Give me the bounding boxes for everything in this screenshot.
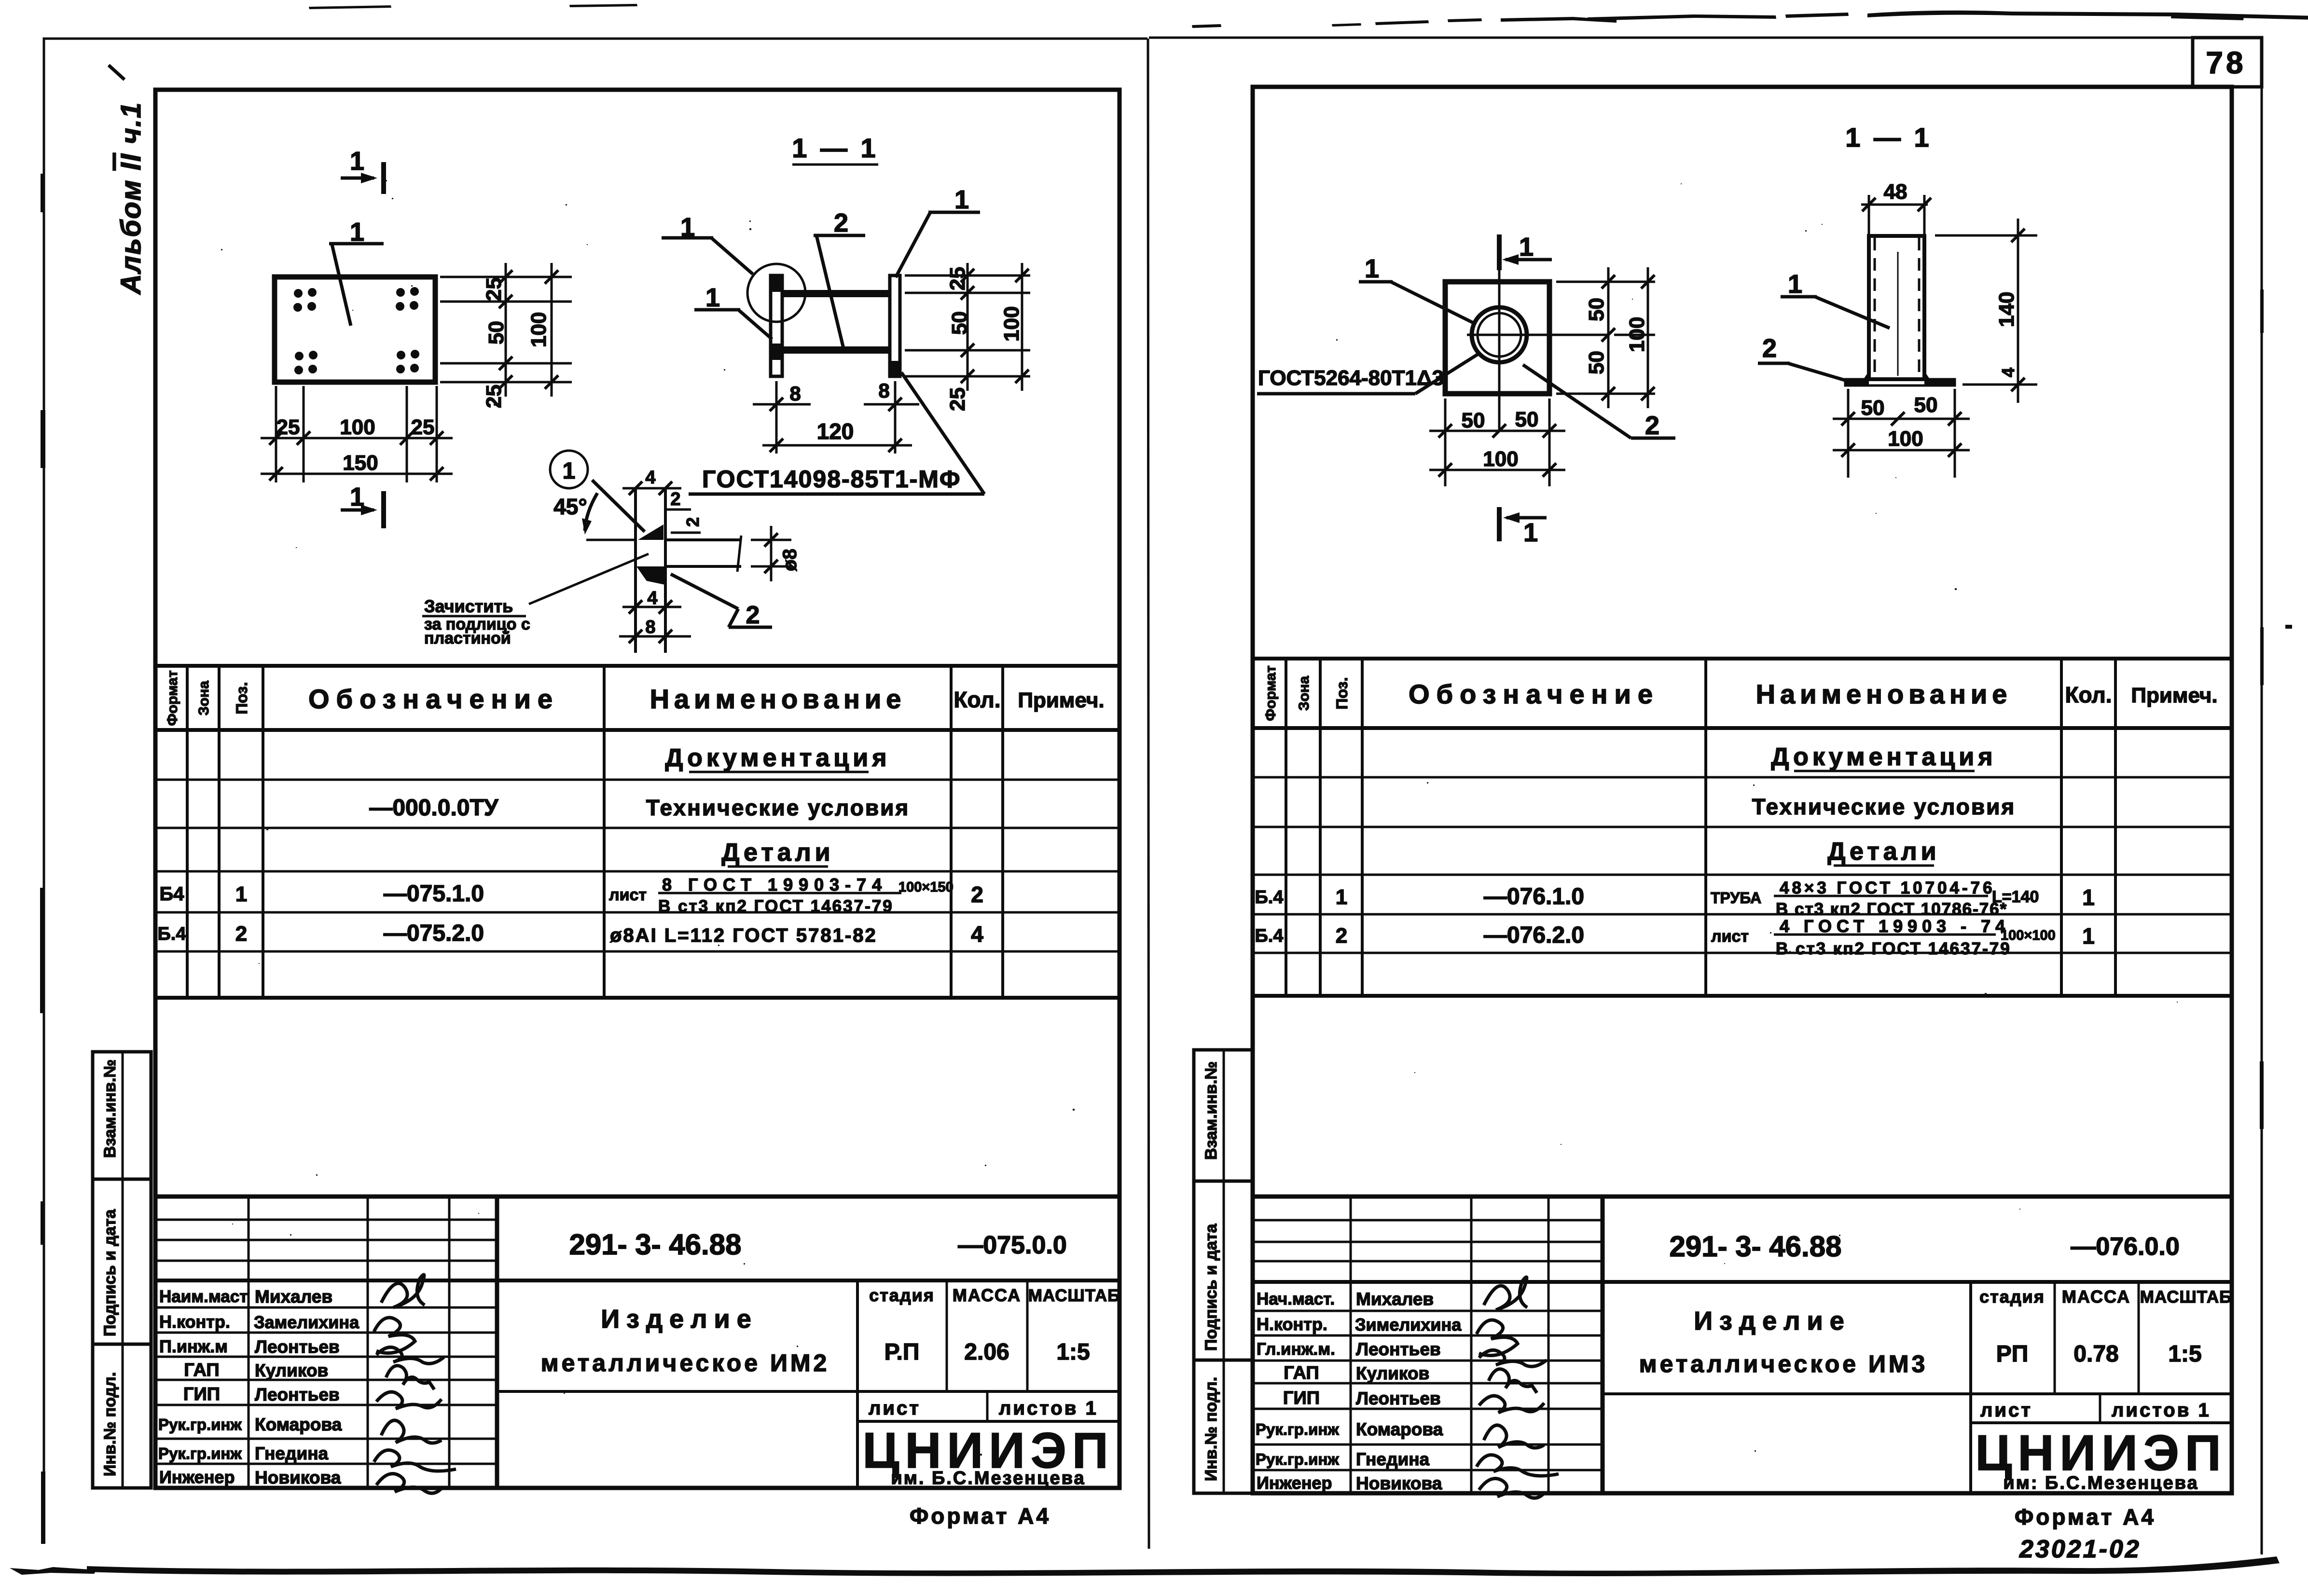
svg-text:2: 2 xyxy=(683,517,703,527)
sheet 1 table row pos.1 plate xyxy=(160,875,983,916)
svg-text:—000.0.0ТУ: —000.0.0ТУ xyxy=(369,795,498,821)
sheet 2 section right dimension 140 and 4 xyxy=(1935,219,2037,403)
sheet 1 section view balloon circle xyxy=(747,264,805,322)
sheet 1 handwritten signatures xyxy=(374,1275,456,1493)
svg-text:Инв.№ подл.: Инв.№ подл. xyxy=(101,1372,119,1476)
sheet 1 table header Формат (rotated) xyxy=(165,670,180,726)
svg-text:100: 100 xyxy=(1625,317,1649,352)
svg-text:листов 1: листов 1 xyxy=(999,1398,1098,1419)
sheet 2 table header Примеч. xyxy=(2131,684,2217,707)
svg-text:ГАП: ГАП xyxy=(184,1360,219,1380)
svg-text:Н.контр.: Н.контр. xyxy=(1257,1314,1327,1334)
sheet 2 plan right dimension group 50/50 and 100 xyxy=(1556,267,1655,408)
sheet 1 note Зачистить за подлицо с пластиной xyxy=(422,554,649,647)
svg-text:291- 3- 46.88: 291- 3- 46.88 xyxy=(1670,1230,1842,1263)
svg-text:50: 50 xyxy=(1585,351,1608,374)
sheet 1 plan right dimension group 25/50/25 and 100 xyxy=(440,263,572,408)
sheet 1 table row Детали xyxy=(721,839,834,867)
svg-text:120: 120 xyxy=(817,419,854,444)
sheet 1 plan view weld point clusters xyxy=(293,287,419,374)
scan artifact: left spine dark dashes xyxy=(40,174,45,1544)
sheet 2 table header Наименование xyxy=(1756,679,2012,709)
svg-text:Формат А4: Формат А4 xyxy=(2015,1504,2156,1529)
svg-text:8: 8 xyxy=(878,379,889,402)
svg-text:Комарова: Комарова xyxy=(255,1415,342,1434)
svg-text:140: 140 xyxy=(1995,292,2018,327)
sheet 2 section leader pos.2 xyxy=(1758,334,1848,381)
svg-text:25: 25 xyxy=(482,277,506,301)
sheet 2 plan bottom dimension group 50/50 and 100 xyxy=(1429,399,1565,486)
svg-text:стадия: стадия xyxy=(869,1285,935,1305)
sheet 2 table header Кол. xyxy=(2065,682,2112,707)
svg-text:пластиной: пластиной xyxy=(424,629,511,647)
svg-text:50: 50 xyxy=(1861,396,1885,420)
sheet 2 table row Технические условия xyxy=(1752,794,2016,819)
sheet 2 table row Документация xyxy=(1771,743,1996,771)
sheet 2 section view: tube xyxy=(1869,236,1924,379)
svg-text:Взам.инв.№: Взам.инв.№ xyxy=(1202,1061,1220,1160)
svg-text:Б4: Б4 xyxy=(160,883,185,905)
svg-text:ø8АI L=112 ГОСТ 5781-82: ø8АI L=112 ГОСТ 5781-82 xyxy=(610,925,877,946)
sheet 2 лист / листов 1 xyxy=(1980,1400,2211,1421)
sheet 1 section view: right flange plate xyxy=(890,275,900,376)
svg-text:Формат: Формат xyxy=(1263,665,1279,721)
sheet 1 section leader 2 xyxy=(814,208,865,350)
sheet 1 section view: top rod xyxy=(782,290,890,297)
sheet 1 margin stamp boxes column xyxy=(93,1052,151,1488)
sheet 2 document code -076.0.0 xyxy=(2071,1233,2180,1261)
svg-text:1: 1 xyxy=(1523,518,1538,547)
sheet 2 section leader pos.1 xyxy=(1781,270,1890,328)
sheet 1 weld designation ГОСТ14098-85Т1-МФ xyxy=(689,372,984,494)
svg-text:Подпись и дата: Подпись и дата xyxy=(101,1209,119,1336)
sheet 1 plan view: plate 150x100 xyxy=(275,277,435,382)
sheet 1 stamp headers стадия масса масштаб xyxy=(869,1285,1120,1305)
svg-text:2: 2 xyxy=(670,489,680,509)
sheet 2 table row Детали xyxy=(1827,838,1940,866)
sheet 1 table row Технические условия xyxy=(369,795,910,821)
svg-text:1: 1 xyxy=(1519,233,1534,261)
svg-text:1: 1 xyxy=(235,882,247,906)
svg-text:—076.2.0: —076.2.0 xyxy=(1484,922,1584,948)
svg-text:ГАП: ГАП xyxy=(1284,1363,1319,1383)
sheet 1 section leader 1 (top left) xyxy=(662,213,753,274)
svg-text:1: 1 xyxy=(1788,270,1802,299)
svg-text:им. Б.С.Мезенцева: им. Б.С.Мезенцева xyxy=(891,1468,1085,1488)
sheet 2 table header Поз. (rotated) xyxy=(1333,677,1351,710)
sheet 2 logo ЦНИИЭП xyxy=(1975,1425,2226,1493)
sheet 2 plan view: square plate 100x100 xyxy=(1445,282,1549,394)
svg-text:Куликов: Куликов xyxy=(1356,1363,1429,1383)
svg-text:Поз.: Поз. xyxy=(233,682,250,715)
svg-text:1: 1 xyxy=(954,185,969,214)
svg-text:лист: лист xyxy=(1980,1400,2032,1421)
svg-text:Формат: Формат xyxy=(165,670,180,726)
svg-text:8 ГОСТ 19903-74: 8 ГОСТ 19903-74 xyxy=(662,875,887,894)
svg-text:Инв.№ подл.: Инв.№ подл. xyxy=(1202,1377,1220,1481)
svg-text:2: 2 xyxy=(971,882,983,907)
svg-text:L=140: L=140 xyxy=(1992,888,2039,906)
svg-text:Наим.маст: Наим.маст xyxy=(159,1287,248,1306)
svg-text:Б.4: Б.4 xyxy=(1255,887,1283,908)
sheet 1 plan section mark bottom "1" xyxy=(341,482,384,528)
sheets divider line xyxy=(1148,39,1149,1549)
scan artifact: torn bottom paper edge xyxy=(10,1556,2280,1576)
sheet 1 specification table grid xyxy=(155,666,1119,998)
sheet 1 detail view weld fillets xyxy=(636,524,665,585)
svg-text:23021-02: 23021-02 xyxy=(2019,1535,2141,1563)
svg-text:Рук.гр.инж: Рук.гр.инж xyxy=(158,1416,242,1433)
sheet 1 margin label Инв.№ подл. xyxy=(101,1372,119,1476)
sheet 1 section 1-1 title xyxy=(792,133,878,165)
svg-text:Технические условия: Технические условия xyxy=(1752,794,2016,819)
svg-text:2: 2 xyxy=(834,208,848,237)
svg-text:4: 4 xyxy=(1998,368,2018,377)
sheet 2 table header Зона (rotated) xyxy=(1296,676,1312,711)
svg-text:Леонтьев: Леонтьев xyxy=(1356,1339,1441,1359)
svg-text:1: 1 xyxy=(2082,885,2095,910)
sheet 1 section view: bottom rod xyxy=(782,346,890,354)
svg-text:Рук.гр.инж: Рук.гр.инж xyxy=(158,1445,242,1462)
svg-text:Н.контр.: Н.контр. xyxy=(159,1312,230,1332)
svg-text:Инженер: Инженер xyxy=(159,1467,235,1487)
sheet 2 section view: base plate xyxy=(1845,371,1955,385)
svg-text:Обозначение: Обозначение xyxy=(308,684,559,714)
svg-text:25: 25 xyxy=(946,267,969,290)
sheet 2 signature rows: job titles xyxy=(1256,1290,1339,1493)
svg-text:100: 100 xyxy=(527,312,551,347)
svg-text:Детали: Детали xyxy=(721,839,834,867)
svg-text:1: 1 xyxy=(705,283,720,312)
svg-text:1: 1 xyxy=(2082,923,2095,949)
sheet 2 signature rows: names xyxy=(1355,1289,1462,1493)
svg-text:Гл.инж.м.: Гл.инж.м. xyxy=(1257,1340,1335,1359)
sheet 1 table row pos.2 rod xyxy=(157,921,983,947)
svg-text:—075.1.0: —075.1.0 xyxy=(384,881,484,907)
svg-text:0.78: 0.78 xyxy=(2073,1341,2118,1367)
sheet 2 Формат А4 label xyxy=(2015,1504,2156,1529)
sheet 1 detail view dimensions xyxy=(619,468,801,643)
svg-text:—076.1.0: —076.1.0 xyxy=(1484,884,1584,909)
sheet 2 plan section mark bottom "1" xyxy=(1499,507,1547,547)
svg-text:Примеч.: Примеч. xyxy=(2131,684,2217,707)
svg-text:1 — 1: 1 — 1 xyxy=(1845,122,1932,152)
svg-text:Леонтьев: Леонтьев xyxy=(255,1337,340,1357)
sheet 1 stamp values РП 2.06 1:5 xyxy=(885,1339,1090,1365)
sheet 2 table header Обозначение xyxy=(1409,679,1659,709)
svg-text:2: 2 xyxy=(235,922,247,946)
svg-text:1: 1 xyxy=(350,482,364,511)
svg-text:стадия: стадия xyxy=(1979,1287,2045,1307)
sheet 2 margin label Инв.№ подл. xyxy=(1202,1377,1220,1481)
sheet 2 plan section mark top "1" xyxy=(1499,233,1552,270)
sheet 1 margin label Взам.инв.№ xyxy=(101,1059,119,1158)
svg-text:ГОСТ14098-85Т1-МФ: ГОСТ14098-85Т1-МФ xyxy=(702,466,961,493)
svg-text:150: 150 xyxy=(343,451,378,475)
sheet 1 section leader 1 (lower left) xyxy=(694,283,772,339)
svg-text:Примеч.: Примеч. xyxy=(1018,688,1104,712)
svg-text:2: 2 xyxy=(746,601,760,629)
svg-text:1: 1 xyxy=(563,458,576,484)
sheet 1 logo ЦНИИЭП xyxy=(862,1423,1114,1488)
svg-text:Технические условия: Технические условия xyxy=(646,795,910,820)
svg-text:Зона: Зона xyxy=(196,681,212,715)
svg-text:2: 2 xyxy=(1336,924,1347,948)
sheet 1 detail view 45 deg chamfer label xyxy=(553,480,645,535)
sheet 1 outer paper border xyxy=(44,39,1147,1542)
svg-text:лист: лист xyxy=(1711,927,1749,946)
sheet 2 margin stamp boxes column xyxy=(1194,1050,1253,1493)
svg-text:Изделие: Изделие xyxy=(1694,1307,1851,1335)
sheet 2 handwritten stamp 23021-02 xyxy=(2019,1535,2141,1563)
sheet 1 album label "Альбом II ч.1" (rotated) xyxy=(115,102,147,295)
sheet 1 signature rows: names xyxy=(254,1287,359,1487)
svg-text:Замелихина: Замелихина xyxy=(254,1312,359,1332)
svg-text:Куликов: Куликов xyxy=(255,1361,328,1380)
svg-text:1 — 1: 1 — 1 xyxy=(792,133,878,163)
sheet 2 document number 291-3-46.88 xyxy=(1670,1230,1842,1263)
svg-text:Рук.гр.инж: Рук.гр.инж xyxy=(1256,1420,1339,1438)
svg-text:Формат А4: Формат А4 xyxy=(910,1503,1051,1528)
sheet 1 section view: left flange plate xyxy=(771,275,782,376)
svg-text:Альбом II ч.1: Альбом II ч.1 xyxy=(115,102,147,295)
svg-text:Р.П: Р.П xyxy=(885,1339,920,1365)
sheet 2 section bottom dimension group 50/50 and 100 xyxy=(1833,389,1970,478)
sheet 1 plan leader pos.1 xyxy=(329,218,384,326)
sheet 2 page number box 78 xyxy=(2193,38,2262,87)
svg-text:100: 100 xyxy=(1888,427,1923,451)
svg-text:Обозначение: Обозначение xyxy=(1409,679,1659,709)
sheet 2 stamp values РП 0.78 1:5 xyxy=(1996,1341,2202,1367)
svg-text:им: Б.С.Мезенцева: им: Б.С.Мезенцева xyxy=(2003,1473,2198,1493)
svg-text:25: 25 xyxy=(411,415,435,439)
svg-text:Новикова: Новикова xyxy=(255,1468,341,1487)
svg-text:МАСШТАБ: МАСШТАБ xyxy=(1028,1286,1120,1305)
svg-text:78: 78 xyxy=(2206,45,2246,80)
svg-text:4 ГОСТ 19903 - 74: 4 ГОСТ 19903 - 74 xyxy=(1780,916,2010,936)
sheet 1 table header Примеч. xyxy=(1018,688,1104,712)
scan artifact: dark marks top left xyxy=(309,4,637,9)
sheet 1 section bottom dimensions 8 8 120 xyxy=(753,379,919,454)
svg-text:Леонтьев: Леонтьев xyxy=(255,1385,340,1404)
svg-text:4: 4 xyxy=(971,922,983,947)
svg-text:4: 4 xyxy=(645,468,655,488)
svg-text:лист: лист xyxy=(869,1398,921,1419)
sheet 1 document number 291-3-46.88 xyxy=(569,1228,742,1261)
svg-text:РП: РП xyxy=(1996,1341,2029,1367)
svg-text:ГОСТ5264-80Т1Δ3: ГОСТ5264-80Т1Δ3 xyxy=(1258,366,1444,390)
sheet 2 plan leader pos.1 xyxy=(1359,254,1473,323)
svg-text:ГИП: ГИП xyxy=(183,1384,220,1404)
svg-text:Документация: Документация xyxy=(1771,743,1996,771)
svg-text:МАССА: МАССА xyxy=(953,1285,1021,1305)
sheet 2 handwritten signatures xyxy=(1477,1277,1559,1498)
sheet 1 table row Документация xyxy=(665,744,890,772)
sheet 1 table header Зона (rotated) xyxy=(196,681,212,715)
svg-text:Зимелихина: Зимелихина xyxy=(1355,1315,1462,1335)
svg-text:П.инж.м: П.инж.м xyxy=(159,1336,228,1356)
sheet 1 signature rows: job titles xyxy=(158,1287,248,1487)
sheet 2 plan view center lines xyxy=(1467,234,1608,431)
sheet 2 specification table grid xyxy=(1253,659,2232,996)
sheet 2 table row pos.1 tube xyxy=(1255,879,2094,919)
svg-text:2: 2 xyxy=(1645,411,1659,440)
svg-text:48×3 ГОСТ 10704-76: 48×3 ГОСТ 10704-76 xyxy=(1780,879,1995,897)
sheet 1 table header Кол. xyxy=(954,687,1000,712)
svg-text:2.06: 2.06 xyxy=(964,1339,1009,1365)
svg-text:2: 2 xyxy=(1762,334,1777,363)
sheet 1 table header Обозначение xyxy=(308,684,559,714)
svg-text:Михалев: Михалев xyxy=(255,1287,332,1307)
svg-text:МАСШТАБ: МАСШТАБ xyxy=(2140,1288,2232,1307)
sheet 2 title block grid xyxy=(1253,1197,2232,1493)
svg-text:Кол.: Кол. xyxy=(2065,682,2112,707)
svg-text:50: 50 xyxy=(1585,298,1608,321)
svg-text:50: 50 xyxy=(1462,409,1485,432)
svg-text:Инженер: Инженер xyxy=(1257,1473,1332,1493)
sheet 1 product name Изделие металлическое ИМ2 xyxy=(541,1305,830,1376)
svg-text:100×150: 100×150 xyxy=(898,880,954,895)
sheet 2 weld designation ГОСТ5264-80Т1д3 xyxy=(1257,354,1478,394)
svg-text:1: 1 xyxy=(1365,254,1379,283)
svg-text:Б.4: Б.4 xyxy=(1255,926,1283,946)
svg-text:1: 1 xyxy=(350,147,364,176)
svg-text:Зачистить: Зачистить xyxy=(424,596,513,616)
svg-text:Детали: Детали xyxy=(1827,838,1940,866)
svg-text:1:5: 1:5 xyxy=(2168,1341,2201,1367)
svg-text:25: 25 xyxy=(946,387,969,411)
scan artifact: corner tick xyxy=(109,65,124,80)
svg-text:Зона: Зона xyxy=(1296,676,1312,711)
sheet 1 plan bottom dimension group 25/100/25 and 150 xyxy=(261,386,453,482)
sheet 2 section dimension 48 xyxy=(1861,180,1931,236)
svg-text:Рук.гр.инж: Рук.гр.инж xyxy=(1256,1450,1339,1468)
svg-text:металлическое ИМ3: металлическое ИМ3 xyxy=(1639,1350,1928,1377)
sheet 2 section 1-1 title xyxy=(1845,122,1932,152)
svg-text:Б.4: Б.4 xyxy=(157,924,186,944)
svg-text:25: 25 xyxy=(276,415,300,439)
svg-text:ТРУБА: ТРУБА xyxy=(1711,889,1761,907)
svg-text:—076.0.0: —076.0.0 xyxy=(2071,1233,2180,1261)
svg-text:8: 8 xyxy=(789,382,801,405)
svg-text:Взам.инв.№: Взам.инв.№ xyxy=(101,1059,119,1158)
svg-text:100×100: 100×100 xyxy=(2001,928,2056,943)
sheet 1 detail view plate and rod xyxy=(586,488,741,653)
svg-text:Документация: Документация xyxy=(665,744,890,772)
scan artifact: right edge dashes xyxy=(2260,289,2292,1129)
svg-text:Изделие: Изделие xyxy=(601,1305,758,1334)
svg-text:291- 3- 46.88: 291- 3- 46.88 xyxy=(569,1228,742,1261)
svg-text:Комарова: Комарова xyxy=(1356,1419,1443,1439)
svg-text:100: 100 xyxy=(1000,306,1023,342)
sheet 2 margin label Взам.инв.№ xyxy=(1202,1061,1220,1160)
sheet 2 stamp headers стадия масса масштаб xyxy=(1979,1287,2232,1307)
svg-text:Леонтьев: Леонтьев xyxy=(1356,1389,1441,1408)
sheet 1 detail balloon circle 1 xyxy=(550,451,588,488)
svg-text:Подпись и дата: Подпись и дата xyxy=(1202,1223,1220,1351)
svg-text:лист: лист xyxy=(609,886,647,904)
svg-text:Михалев: Михалев xyxy=(1356,1289,1434,1309)
scan artifact: dark marks above top border right half xyxy=(1192,11,2308,28)
sheet 2 margin label Подпись и дата xyxy=(1202,1223,1220,1351)
sheet 2 product name Изделие металлическое ИМ3 xyxy=(1639,1307,1928,1377)
svg-text:ГИП: ГИП xyxy=(1283,1388,1320,1408)
sheet 1 Формат А4 label xyxy=(910,1503,1051,1528)
svg-text:МАССА: МАССА xyxy=(2062,1287,2130,1307)
svg-text:8: 8 xyxy=(645,617,655,637)
sheet 2 plan view tube circles xyxy=(1472,307,1527,362)
svg-text:Наименование: Наименование xyxy=(1756,679,2012,709)
svg-text:1:5: 1:5 xyxy=(1056,1339,1090,1365)
svg-text:Нач.маст.: Нач.маст. xyxy=(1257,1290,1335,1308)
svg-text:Кол.: Кол. xyxy=(954,687,1000,712)
sheet 2 table row pos.2 plate xyxy=(1255,916,2094,958)
sheet 1 table header Наименование xyxy=(650,684,906,714)
svg-text:В ст3 кп2 ГОСТ 14637-79: В ст3 кп2 ГОСТ 14637-79 xyxy=(1776,939,2011,958)
sheet 1 table header Поз. (rotated) xyxy=(233,682,250,715)
sheet 1 лист / листов 1 xyxy=(869,1398,1098,1419)
sheet 1 margin label Подпись и дата xyxy=(101,1209,119,1336)
scan artifact: speckle noise dots xyxy=(221,180,2178,1456)
sheet 1 title block grid xyxy=(155,1197,1119,1488)
svg-text:100: 100 xyxy=(340,415,375,439)
svg-text:50: 50 xyxy=(1914,393,1938,417)
svg-text:Наименование: Наименование xyxy=(650,684,906,714)
svg-text:Гнедина: Гнедина xyxy=(255,1444,329,1463)
svg-text:—075.0.0: —075.0.0 xyxy=(958,1231,1067,1259)
svg-text:ø8: ø8 xyxy=(779,549,801,571)
svg-text:50: 50 xyxy=(1515,408,1539,431)
sheet 1 document code -075.0.0 xyxy=(958,1231,1067,1259)
sheet 2 table header Формат (rotated) xyxy=(1263,665,1279,721)
svg-text:—075.2.0: —075.2.0 xyxy=(384,921,484,946)
svg-text:Новикова: Новикова xyxy=(1356,1473,1442,1493)
sheet 1 inner drawing frame xyxy=(155,90,1119,1488)
svg-text:45°: 45° xyxy=(553,494,587,519)
svg-text:1: 1 xyxy=(1336,885,1347,909)
svg-text:металлическое ИМ2: металлическое ИМ2 xyxy=(541,1349,830,1376)
sheet 2 inner drawing frame xyxy=(1253,87,2232,1493)
sheet 2 outer paper border xyxy=(1149,38,2262,1555)
svg-text:48: 48 xyxy=(1884,180,1907,204)
sheet 2 plan leader pos.2 xyxy=(1523,365,1675,440)
svg-text:В ст3 кп2 ГОСТ 14637-79: В ст3 кп2 ГОСТ 14637-79 xyxy=(658,897,894,916)
sheet 1 section leader 1 (top right) xyxy=(896,185,980,277)
sheet 1 plan section mark top "1" xyxy=(341,147,384,194)
svg-text:Поз.: Поз. xyxy=(1333,677,1351,710)
svg-text:4: 4 xyxy=(647,588,657,608)
svg-text:50: 50 xyxy=(484,321,508,344)
sheet 1 section right dimension group 25/50/25 and 100 xyxy=(905,263,1030,411)
svg-text:Гнедина: Гнедина xyxy=(1356,1449,1430,1469)
svg-text:листов 1: листов 1 xyxy=(2112,1400,2211,1421)
svg-text:50: 50 xyxy=(948,311,971,335)
sheet 1 detail leader pos.2 xyxy=(671,574,772,629)
svg-text:100: 100 xyxy=(1483,447,1518,471)
